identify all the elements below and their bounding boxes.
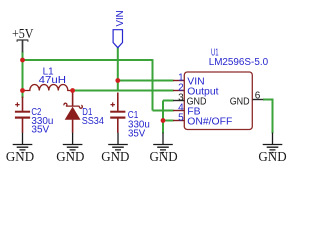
- svg-text:GND: GND: [187, 97, 207, 108]
- svg-text:GND: GND: [258, 149, 287, 164]
- svg-text:GND: GND: [101, 149, 130, 164]
- svg-text:GND: GND: [6, 149, 35, 164]
- svg-text:VIN: VIN: [115, 10, 126, 26]
- svg-text:5: 5: [178, 112, 184, 123]
- svg-text:LM2596S-5.0: LM2596S-5.0: [209, 57, 269, 68]
- svg-text:47uH: 47uH: [39, 75, 66, 86]
- svg-text:6: 6: [255, 90, 261, 101]
- svg-text:GND: GND: [56, 149, 85, 164]
- svg-text:GND: GND: [150, 149, 179, 164]
- svg-text:ON#/OFF: ON#/OFF: [187, 117, 232, 128]
- svg-text:+5V: +5V: [12, 26, 34, 41]
- svg-text:GND: GND: [230, 96, 250, 107]
- svg-text:35V: 35V: [31, 125, 49, 136]
- svg-text:SS34: SS34: [82, 116, 105, 127]
- svg-text:35V: 35V: [128, 129, 146, 140]
